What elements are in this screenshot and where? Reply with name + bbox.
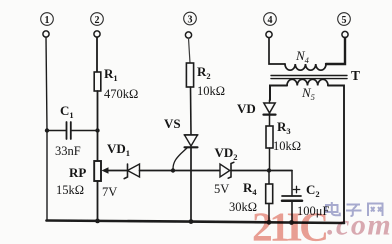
svg-text:33nF: 33nF [55,144,81,158]
wire junction to R4 [268,171,270,185]
wire VD1 to VD2 (gate line) [140,170,221,172]
transformer core T [271,68,360,83]
resistor R1 [94,66,138,101]
wire terminal4 to N4 [269,38,285,64]
wire terminal1 to bottom rail [46,37,47,220]
wire gate of VS [173,148,188,170]
diode VD [237,100,276,126]
terminal 1 [41,13,54,37]
node C2-rail junction [289,220,294,225]
resistor R2 [186,63,225,98]
terminal 3 [184,12,197,38]
wire R2 to VS [190,87,193,135]
watermark 21IC [252,204,326,244]
svg-text:7V: 7V [102,185,117,199]
wire N5 left lead to VD [270,86,287,101]
capacitor C2 [282,171,329,223]
svg-text:1: 1 [45,15,50,26]
transformer winding N5 [287,79,328,102]
node C1-left junction [45,128,49,132]
node gate junction [171,168,175,172]
svg-text:4: 4 [268,15,273,26]
svg-text:5V: 5V [214,182,229,196]
node VS-rail junction [189,219,194,224]
svg-text:3: 3 [188,15,193,26]
svg-text:470kΩ: 470kΩ [104,87,138,101]
wire VS cathode to bottom rail [190,147,192,221]
terminal 2 [91,13,104,37]
svg-text:VD: VD [237,101,256,116]
node C1-right junction [95,128,99,132]
svg-text:15kΩ: 15kΩ [56,183,84,197]
wire RP to bottom rail [97,181,99,221]
svg-text:21IC: 21IC [252,204,326,244]
svg-text:10kΩ: 10kΩ [197,84,225,98]
node RP-rail junction [95,219,100,224]
svg-text:10kΩ: 10kΩ [273,139,301,153]
wire R4 to bottom rail [268,204,270,223]
node R4-rail junction [267,220,272,225]
wire VD2 to C2 corner [231,170,292,172]
wire N5 right lead to bottom rail [328,86,344,223]
svg-text:5: 5 [342,15,347,26]
wire R1 to RP [97,91,99,161]
resistor R3 [266,119,301,153]
wire N4 to terminal5 [326,38,345,64]
potentiometer RP [56,161,128,197]
bottom rail wire [47,221,345,224]
zener diode VD2 [214,145,238,196]
terminal 4 [264,13,277,38]
svg-text:VS: VS [164,116,181,131]
wire terminal3 to R2 [189,38,191,63]
capacitor C1 [47,103,98,158]
transformer winding N4 [285,48,326,70]
zener diode VD1 [102,141,140,199]
wire R3 to junction [269,148,271,171]
resistor R4 [229,180,273,214]
watermark chinese chars [326,202,383,216]
terminal 5 [338,13,351,38]
node R3/R4 junction [267,168,271,172]
svg-text:RP: RP [69,165,86,180]
svg-text:T: T [351,68,360,83]
thyristor VS [164,116,198,147]
watermark .com [327,209,392,242]
wire terminal2 to R1 [96,37,98,72]
svg-text:2: 2 [95,15,100,26]
